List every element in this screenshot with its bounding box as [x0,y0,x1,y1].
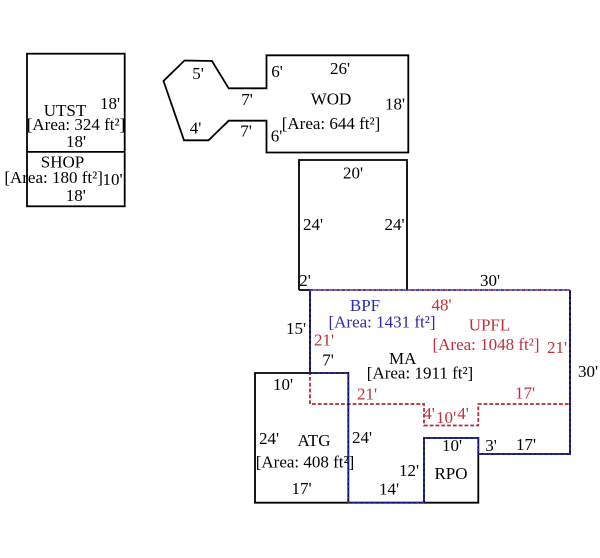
svg-text:10': 10' [442,436,462,455]
room UTST/SHOP outline [27,54,125,207]
BPF+UPFL shared top edge (alternating blue/red dashes) [310,289,570,291]
svg-text:[Area: 1431 ft²]: [Area: 1431 ft²] [328,313,435,332]
svg-text:14': 14' [379,480,399,499]
svg-text:20': 20' [343,164,363,183]
svg-text:18': 18' [66,132,86,151]
svg-text:6': 6' [271,127,283,146]
svg-text:24': 24' [259,429,279,448]
BPF blue labels [328,296,435,332]
svg-text:4': 4' [457,404,469,423]
svg-text:24': 24' [384,215,404,234]
svg-text:21': 21' [357,385,377,404]
svg-text:4': 4' [190,119,202,138]
svg-text:12': 12' [399,461,419,480]
svg-text:6': 6' [271,62,283,81]
svg-text:15': 15' [286,319,306,338]
MA outer boundary (shared with BPF, drawn dark) [310,290,570,503]
svg-text:18': 18' [66,186,86,205]
svg-text:4': 4' [423,404,435,423]
svg-text:24': 24' [303,215,323,234]
svg-text:[Area: 408 ft²]: [Area: 408 ft²] [256,453,355,472]
room WOD outline [164,55,409,152]
svg-text:21': 21' [547,338,567,357]
room RPO outline [424,454,478,503]
svg-text:30': 30' [578,362,598,381]
svg-text:WOD: WOD [311,90,352,109]
svg-text:17': 17' [291,479,311,498]
black dimension and room labels [4,59,598,499]
svg-text:7': 7' [322,351,334,370]
svg-text:48': 48' [432,296,452,315]
svg-text:[Area: 644 ft²]: [Area: 644 ft²] [282,114,381,133]
room ATG outline [255,373,348,503]
BPF dashed blue boundary [310,290,570,503]
svg-text:10': 10' [273,375,293,394]
svg-text:18': 18' [100,94,120,113]
svg-text:17': 17' [516,435,536,454]
svg-text:[Area: 1911 ft²]: [Area: 1911 ft²] [367,364,473,383]
svg-text:5': 5' [192,64,204,83]
svg-text:3': 3' [485,436,497,455]
UPFL red labels [314,296,567,427]
svg-text:7': 7' [240,122,252,141]
svg-text:21': 21' [314,331,334,350]
svg-text:18': 18' [385,95,405,114]
svg-text:[Area: 180 ft²]: [Area: 180 ft²] [4,168,103,187]
svg-text:RPO: RPO [434,464,467,483]
UPFL dashed red boundary [310,290,570,426]
svg-text:26': 26' [330,59,350,78]
svg-text:7': 7' [241,90,253,109]
svg-text:[Area: 1048 ft²]: [Area: 1048 ft²] [432,335,539,354]
svg-text:UPFL: UPFL [469,316,511,335]
svg-text:10': 10' [102,170,122,189]
svg-text:30': 30' [480,271,500,290]
svg-text:10': 10' [436,408,456,427]
svg-text:24': 24' [352,428,372,447]
svg-text:ATG: ATG [297,431,330,450]
svg-text:2': 2' [299,271,311,290]
svg-text:17': 17' [515,384,535,403]
middle rect (part of MA) [299,160,407,290]
